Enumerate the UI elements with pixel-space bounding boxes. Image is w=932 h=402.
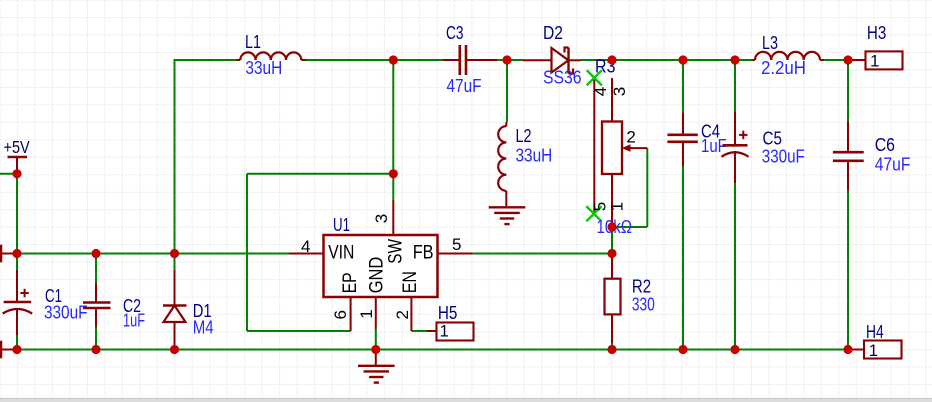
svg-text:U1: U1 [333, 215, 350, 235]
inductor L3 [755, 52, 820, 60]
pin GND lead (U1 pin 1) [375, 297, 377, 329]
svg-text:1uF: 1uF [123, 311, 145, 331]
svg-text:1: 1 [357, 309, 376, 318]
junction node FB [607, 249, 616, 258]
junction node VIN rail left [12, 249, 21, 258]
wire L2 top [506, 60, 508, 122]
svg-text:H5: H5 [438, 303, 458, 323]
junction node C2 top [91, 249, 100, 258]
wire R2 bottom stub [611, 343, 613, 350]
svg-text:1: 1 [869, 341, 878, 360]
diode D1 [174, 270, 176, 306]
svg-text:1: 1 [870, 52, 879, 71]
op-amp U1 body [324, 235, 438, 297]
pin 1 lead (R3) [611, 174, 613, 227]
junction node D2-R3 [607, 55, 616, 64]
header H3 [848, 59, 866, 61]
wire +5V horizontal [0, 173, 17, 175]
wiper pin 2 (R3) [629, 147, 647, 149]
junction node D1 top [170, 249, 179, 258]
svg-text:3: 3 [610, 87, 629, 96]
wire C2 bottom stub [95, 327, 97, 350]
svg-text:SS36: SS36 [543, 67, 582, 87]
wire C6 bottom [847, 191, 849, 350]
wire C5 bottom [734, 183, 736, 349]
svg-text:+5V: +5V [4, 137, 30, 157]
svg-text:1: 1 [440, 322, 449, 341]
capacitor C5 [734, 111, 736, 145]
svg-text:L1: L1 [245, 32, 261, 52]
svg-text:3: 3 [372, 214, 391, 223]
svg-text:H4: H4 [866, 322, 884, 342]
wire D1 top stub [174, 254, 176, 271]
svg-text:330uF: 330uF [44, 302, 88, 322]
resistor R3 body [602, 122, 622, 175]
scrollbar track bottom [0, 398, 932, 402]
capacitor C4 [682, 112, 684, 134]
svg-text:FB: FB [413, 243, 434, 264]
svg-text:2: 2 [393, 310, 412, 319]
junction node OUT H3 [843, 55, 852, 64]
junction node GND U1 [371, 345, 380, 354]
junction node C4 bottom [678, 345, 687, 354]
header H4 [848, 349, 864, 351]
svg-text:2: 2 [626, 128, 635, 147]
junction node L2 top [502, 55, 511, 64]
wire top rail D2-to-L3 [581, 59, 753, 61]
svg-text:L3: L3 [762, 33, 778, 53]
wire R3 wiper net horizontal [612, 226, 647, 228]
junction node +5V [12, 169, 21, 178]
wire C1 bottom stub [16, 335, 18, 350]
svg-text:33uH: 33uH [516, 146, 553, 166]
wire R3 wiper net vertical [646, 148, 648, 227]
svg-text:47uF: 47uF [875, 155, 911, 175]
wire C5 top [734, 60, 736, 111]
pin stub left edge lower [0, 349, 17, 351]
junction node R3 wiper [607, 222, 616, 231]
junction node GND left [12, 345, 21, 354]
svg-text:C6: C6 [875, 135, 895, 155]
resistor R2 [605, 279, 621, 315]
svg-text:330uF: 330uF [762, 146, 805, 166]
junction node GND H4 [843, 345, 852, 354]
ground (under L2) [489, 206, 526, 208]
wire C4 top [682, 60, 684, 112]
svg-text:4: 4 [301, 237, 310, 256]
pin FB lead (U1 pin 5) [438, 253, 473, 255]
svg-text:5: 5 [452, 235, 461, 254]
capacitor C3 [443, 59, 460, 61]
wire top rail C3-to-D2 [497, 59, 523, 61]
inductor L2 [498, 126, 506, 191]
svg-text:47uF: 47uF [447, 76, 482, 96]
junction node C4 top [678, 55, 687, 64]
power flag +5V [8, 156, 28, 158]
svg-text:33uH: 33uH [245, 58, 282, 78]
svg-text:VIN: VIN [328, 243, 354, 264]
ground (U1 GND) [375, 350, 377, 366]
pin EN lead (U1 pin 2) [410, 297, 412, 331]
wire top rail left segment [175, 59, 237, 61]
pin 4-5 line (R3) [593, 78, 595, 214]
svg-text:L2: L2 [516, 126, 532, 146]
pin EP lead (U1 pin 6) [350, 297, 352, 331]
pin 3 lead (R3) [611, 78, 613, 122]
diode D2 (schottky) [523, 59, 552, 61]
wire EN to H5 [411, 330, 427, 332]
capacitor C6 [847, 122, 849, 152]
pin VIN lead (U1 pin 4) [289, 253, 324, 255]
wire +5V vertical [16, 174, 18, 254]
wire C2 top stub [95, 254, 97, 284]
svg-text:EN: EN [400, 271, 421, 293]
wire EP-SW loop horizontal [247, 173, 393, 175]
svg-text:C3: C3 [446, 23, 464, 43]
wire GND pin stub [375, 329, 377, 350]
inductor L1 [240, 52, 301, 60]
wire FB horizontal [473, 253, 613, 255]
pin SW lead (U1 pin 3) [392, 200, 394, 235]
pin stub left edge upper [0, 253, 17, 255]
junction node D1 bottom [170, 345, 179, 354]
svg-text:330: 330 [632, 294, 655, 314]
wire R3 pin1 to FB node [611, 227, 613, 254]
wire EP horizontal [247, 330, 351, 332]
wire top rail L1-to-C3 [306, 59, 443, 61]
junction node R2 bottom [607, 345, 616, 354]
wire top rail L3-to-H3 [824, 59, 848, 61]
svg-text:M4: M4 [193, 318, 214, 338]
svg-text:C5: C5 [763, 128, 782, 148]
svg-text:2.2uH: 2.2uH [761, 58, 806, 78]
header H5 [427, 330, 437, 332]
svg-text:H3: H3 [867, 23, 886, 43]
svg-text:1: 1 [608, 202, 627, 211]
wire C1 top stub [16, 254, 18, 271]
wire EP-SW loop vertical [246, 174, 248, 331]
wire C6 top [847, 60, 849, 122]
svg-text:GND: GND [367, 257, 388, 294]
junction node C2 bottom [91, 345, 100, 354]
wire bottom GND rail [17, 349, 848, 351]
no-connect X bottom (R3 pin 5) [586, 206, 601, 221]
wire vertical x=174.5 (+5V rail to VIN rail) [174, 59, 176, 254]
wire SW vertical upper [392, 60, 394, 200]
capacitor C2 [95, 283, 97, 303]
svg-text:6: 6 [331, 310, 350, 319]
junction node SW top [389, 55, 398, 64]
svg-text:4: 4 [591, 87, 610, 96]
no-connect X top (R3 pin 4) [587, 70, 602, 85]
svg-text:EP: EP [340, 272, 361, 293]
capacitor C1 [16, 270, 18, 302]
junction node C5 bottom [730, 345, 739, 354]
svg-text:D2: D2 [543, 23, 563, 43]
wire C4 bottom [682, 166, 684, 350]
junction node C5 top [730, 55, 739, 64]
wire VIN rail [17, 253, 289, 255]
junction node SW-EP loop [389, 169, 398, 178]
svg-text:SW: SW [386, 239, 407, 264]
